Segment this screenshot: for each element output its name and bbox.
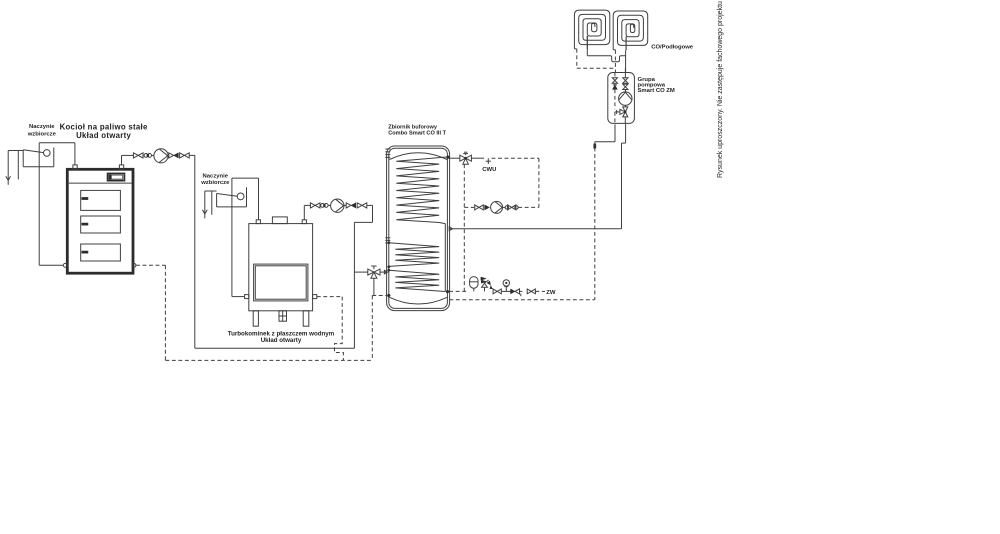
svg-text:wzbiorcze: wzbiorcze [200,180,230,186]
svg-text:Rysunek uproszczony. Nie zastę: Rysunek uproszczony. Nie zastępuje facho… [717,1,724,178]
svg-text:wzbiorcze: wzbiorcze [27,131,57,137]
svg-text:ZW: ZW [546,290,556,296]
svg-text:Układ otwarty: Układ otwarty [76,131,131,140]
svg-text:Smart CO ZM: Smart CO ZM [638,88,675,94]
svg-text:CWU: CWU [482,167,496,173]
svg-text:CO/Podłogowe: CO/Podłogowe [651,44,694,50]
svg-text:Naczynie: Naczynie [203,174,229,180]
svg-text:Układ otwarty: Układ otwarty [261,337,302,344]
svg-text:Combo Smart CO III T: Combo Smart CO III T [388,130,446,136]
svg-text:Naczynie: Naczynie [29,124,55,130]
